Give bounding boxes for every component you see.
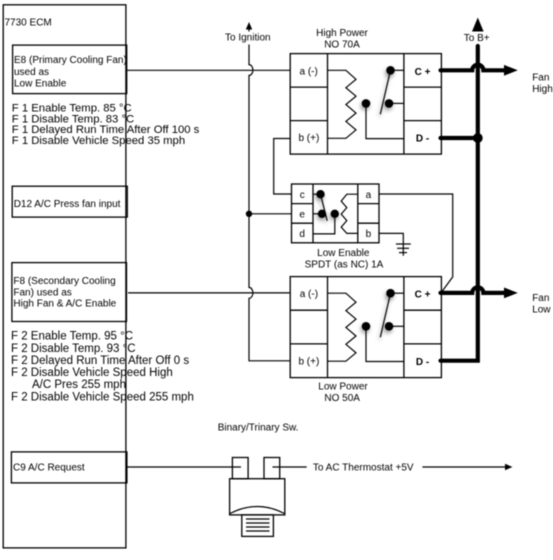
K2 coil <box>328 293 357 361</box>
svg-text:a: a <box>366 190 372 201</box>
svg-text:F 2 Delayed Run Time After Off: F 2 Delayed Run Time After Off 0 s <box>11 355 189 367</box>
svg-text:F 2 Disable Vehicle Speed 255: F 2 Disable Vehicle Speed 255 mph <box>11 391 194 403</box>
svg-text:b: b <box>366 229 372 240</box>
svg-text:F 2 Disable Temp. 93 °C: F 2 Disable Temp. 93 °C <box>11 343 136 355</box>
K2 aux contact wire <box>389 325 404 327</box>
thick wire K1 D- to bus <box>441 136 478 140</box>
svg-text:NO 50A: NO 50A <box>324 393 360 404</box>
K3 aux contact dot <box>318 210 326 218</box>
K3 pin column lines <box>292 184 380 243</box>
svg-text:NO 70A: NO 70A <box>324 40 360 51</box>
svg-text:F 2 Disable Vehicle Speed High: F 2 Disable Vehicle Speed High <box>11 367 173 379</box>
K3 common contact dot <box>331 210 339 218</box>
svg-text:a (-): a (-) <box>300 289 318 300</box>
K2 outline <box>290 277 441 378</box>
K3 outline <box>292 184 380 243</box>
junction dot ignition / e <box>246 211 252 217</box>
K1 NO contact dot <box>386 66 395 75</box>
K3 NC contact dot <box>316 190 324 198</box>
svg-text:F8 (Secondary Cooling: F8 (Secondary Cooling <box>13 276 115 287</box>
svg-text:7730 ECM: 7730 ECM <box>5 18 52 29</box>
K3 switch arm <box>321 194 328 221</box>
K1 aux contact wire <box>389 102 404 104</box>
pin box E8 <box>13 45 127 94</box>
svg-text:A/C Pres 255 mph: A/C Pres 255 mph <box>32 379 126 391</box>
F2 settings text <box>11 331 194 404</box>
wire junction to K3 pin e <box>249 213 292 215</box>
K3 common contact wire to d <box>313 214 335 234</box>
S1 bellows lines <box>246 519 270 531</box>
relay K2 Low Power NO 50A <box>290 277 441 404</box>
thick wire K2 C+ to Fan Low with hop over bus <box>441 287 505 293</box>
svg-text:High: High <box>532 84 553 95</box>
svg-text:To Ignition: To Ignition <box>225 33 271 44</box>
ECM enclosure box <box>3 5 126 548</box>
pressure switch S1 <box>230 458 285 537</box>
S1 diaphragm arc <box>230 507 284 514</box>
K2 common contact wire to D- <box>366 326 404 361</box>
svg-text:SPDT (as NC) 1A: SPDT (as NC) 1A <box>305 259 384 270</box>
wire C9 to switch terminal <box>128 466 242 468</box>
K3 NC contact wire to c <box>313 193 321 195</box>
svg-text:Low Enable: Low Enable <box>14 78 67 89</box>
svg-text:F 2 Enable Temp. 95 °C: F 2 Enable Temp. 95 °C <box>11 331 133 343</box>
To B+ arrow <box>472 18 484 32</box>
K2 switch arm <box>380 293 390 337</box>
K2 NO contact wire to C+ <box>391 292 404 294</box>
F1 settings text <box>12 102 200 147</box>
B+ bus thick wire <box>441 46 478 361</box>
svg-text:Low: Low <box>532 305 551 316</box>
svg-text:High Power: High Power <box>316 28 368 39</box>
svg-text:Low Power: Low Power <box>318 382 368 393</box>
S1 terminal left <box>232 458 248 479</box>
K1 coil <box>328 70 357 138</box>
K3 aux contact wire to e <box>313 213 322 215</box>
svg-text:D12 A/C Press fan input: D12 A/C Press fan input <box>14 199 121 210</box>
svg-text:High Fan & A/C Enable: High Fan & A/C Enable <box>13 299 116 310</box>
wire to arrow <box>422 466 508 468</box>
svg-text:Fan) used as: Fan) used as <box>13 287 71 298</box>
K1 common contact wire to D- <box>366 103 404 138</box>
K1 pin column lines <box>290 54 441 155</box>
relay K3 Low Enable SPDT <box>292 184 384 270</box>
K1 switch arm <box>380 70 390 114</box>
S1 body <box>230 479 285 515</box>
svg-text:Low Enable: Low Enable <box>317 248 370 259</box>
K3 coil <box>341 194 358 233</box>
wire K1 b(+) to K3 pin c <box>274 139 292 195</box>
S1 terminal right <box>264 458 280 479</box>
K2 NO contact dot <box>386 289 395 298</box>
wire switch to AC thermostat <box>273 466 307 468</box>
svg-text:b (+): b (+) <box>298 133 319 144</box>
K2 common contact dot <box>362 322 371 331</box>
K1 NO contact wire to C+ <box>391 69 404 71</box>
svg-text:a (-): a (-) <box>300 67 318 78</box>
svg-text:Binary/Trinary Sw.: Binary/Trinary Sw. <box>218 422 299 433</box>
svg-text:e: e <box>299 209 305 220</box>
K2 pin column lines <box>290 277 441 378</box>
wire F8 to K2 a(-) with hop over ignition line <box>128 292 290 294</box>
K1 outline <box>290 54 441 155</box>
svg-text:To B+: To B+ <box>464 33 490 44</box>
svg-text:used as: used as <box>14 67 49 78</box>
Fan High arrowhead <box>504 65 518 76</box>
K1 aux contact dot <box>385 99 394 108</box>
To Ignition arrow <box>246 22 252 32</box>
svg-text:b (+): b (+) <box>298 356 319 367</box>
pin box D12 <box>12 186 127 217</box>
ground symbol <box>379 233 411 255</box>
AC thermostat arrowhead <box>505 464 513 470</box>
svg-text:C9 A/C Request: C9 A/C Request <box>13 462 85 473</box>
S1 bellows box <box>242 515 274 537</box>
pin box C9 <box>11 452 127 483</box>
svg-text:c: c <box>300 190 305 201</box>
svg-text:D -: D - <box>416 357 429 368</box>
pin box F8 <box>12 263 127 322</box>
svg-text:Fan: Fan <box>532 73 549 84</box>
svg-text:C +: C + <box>415 67 431 78</box>
K2 aux contact dot <box>385 322 394 331</box>
thick wire K1 C+ to Fan High with hop over bus <box>441 65 505 71</box>
svg-text:F 1 Disable Vehicle Speed 35 m: F 1 Disable Vehicle Speed 35 mph <box>12 135 185 147</box>
wire K3 a to K2 C+ node <box>379 194 453 293</box>
svg-text:C +: C + <box>415 289 431 300</box>
wire E8 to K1 a(-) with hop over ignition line <box>127 69 290 71</box>
Fan Low arrowhead <box>504 288 518 299</box>
relay K1 High Power NO 70A <box>290 28 441 154</box>
svg-text:Fan: Fan <box>532 293 549 304</box>
junction dot D- / bus <box>473 133 483 143</box>
svg-text:E8 (Primary Cooling Fan): E8 (Primary Cooling Fan) <box>14 55 127 66</box>
svg-text:d: d <box>299 229 305 240</box>
wire ignition bus down to K2 b(+) <box>249 45 290 361</box>
svg-text:To AC Thermostat +5V: To AC Thermostat +5V <box>313 463 414 474</box>
svg-text:D -: D - <box>416 134 429 145</box>
K1 common contact dot <box>362 99 371 108</box>
